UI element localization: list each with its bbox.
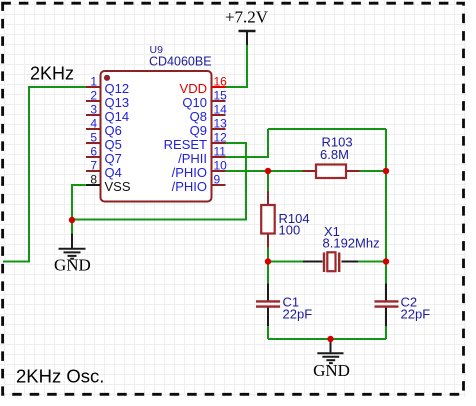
svg-text:9: 9: [214, 173, 221, 187]
pin 13 Q9: [190, 117, 228, 138]
pin 16 VDD: [180, 75, 228, 96]
svg-text:Q12: Q12: [105, 81, 130, 96]
wire bottom rail: [268, 338, 386, 340]
ground GND bottom: [313, 340, 350, 380]
svg-text:VSS: VSS: [105, 179, 131, 194]
svg-text:6.8M: 6.8M: [320, 147, 349, 162]
svg-text:22pF: 22pF: [401, 307, 431, 322]
pin 5 Q5: [86, 131, 122, 152]
wire node to R104 top: [267, 171, 269, 192]
svg-text:3: 3: [90, 103, 97, 117]
pin 11 /PHII: [178, 145, 226, 166]
svg-text:Q6: Q6: [105, 123, 122, 138]
svg-text:22pF: 22pF: [283, 307, 313, 322]
svg-text:1: 1: [90, 75, 97, 89]
svg-text:11: 11: [214, 145, 227, 159]
wire X1 left node: [268, 261, 303, 263]
pin-1 marker dot: [104, 75, 110, 81]
junction node X1 left: [265, 258, 271, 264]
wire C1 bottom: [267, 308, 269, 327]
svg-text:+7.2V: +7.2V: [225, 8, 269, 27]
wire pin10 /PHIO to R103 left: [220, 170, 303, 172]
svg-text:RESET: RESET: [164, 137, 207, 152]
svg-text:/PHIO: /PHIO: [172, 165, 207, 180]
pin 6 Q7: [86, 145, 122, 166]
svg-text:GND: GND: [313, 361, 350, 380]
svg-text:100: 100: [279, 222, 301, 237]
IC U9 CD4060BE: [101, 44, 212, 201]
svg-text:5: 5: [90, 131, 97, 145]
capacitor C2: [375, 295, 431, 322]
svg-text:4: 4: [90, 117, 97, 131]
wire top rail: [268, 128, 386, 130]
wire C1 top: [267, 262, 269, 284]
svg-text:2: 2: [90, 89, 97, 103]
wire X1 left black segment: [303, 261, 323, 263]
wire X1 right to rail: [358, 261, 386, 263]
svg-text:Q10: Q10: [182, 95, 207, 110]
pin 2 Q13: [86, 89, 129, 110]
svg-text:8.192Mhz: 8.192Mhz: [323, 236, 380, 251]
svg-text:14: 14: [214, 103, 228, 117]
svg-text:16: 16: [214, 75, 228, 89]
junction node R103 right: [383, 168, 389, 174]
svg-text:2KHz Osc.: 2KHz Osc.: [16, 366, 104, 387]
wire right rail vertical: [385, 129, 387, 262]
pin 9 /PHIO: [172, 173, 226, 194]
svg-text:10: 10: [214, 159, 228, 173]
svg-text:Q7: Q7: [105, 151, 122, 166]
svg-text:12: 12: [214, 131, 228, 145]
wire pin8 VSS to ground junction: [72, 185, 86, 234]
svg-text:GND: GND: [54, 256, 91, 275]
svg-text:Q13: Q13: [105, 95, 130, 110]
wire R103 right to right rail: [360, 170, 387, 172]
pin 14 Q8: [190, 103, 228, 124]
svg-text:7: 7: [90, 159, 97, 173]
pin 4 Q6: [86, 117, 122, 138]
wire C2 bottom: [385, 308, 387, 327]
wire RESET pin12 to ground junction: [71, 143, 246, 220]
svg-text:15: 15: [214, 89, 228, 103]
resistor R104: [261, 191, 309, 248]
pin 7 Q4: [86, 159, 122, 180]
wire pin11 /PHII up to top rail: [220, 129, 269, 157]
pin 15 Q10: [182, 89, 227, 110]
svg-text:Q9: Q9: [190, 123, 207, 138]
svg-text:Q14: Q14: [105, 109, 130, 124]
junction node X1 right: [383, 258, 389, 264]
pin 12 RESET: [164, 131, 228, 152]
svg-text:Q4: Q4: [105, 165, 122, 180]
pin 3 Q14: [86, 103, 129, 124]
wire pin16 VDD to +7.2V: [226, 45, 248, 87]
ground GND left: [54, 234, 91, 275]
svg-text:CD4060BE: CD4060BE: [149, 54, 212, 68]
resistor R103: [303, 135, 360, 179]
svg-text:6: 6: [90, 145, 97, 159]
svg-text:/PHII: /PHII: [178, 151, 207, 166]
svg-text:VDD: VDD: [180, 81, 207, 96]
pin 1 Q12: [86, 75, 129, 96]
svg-text:Q5: Q5: [105, 137, 122, 152]
junction node R103 left: [265, 168, 271, 174]
crystal X1: [323, 224, 380, 272]
svg-text:2KHz: 2KHz: [30, 64, 74, 84]
svg-text:/PHIO: /PHIO: [172, 179, 207, 194]
wire R104 bottom to X1 node: [267, 247, 269, 262]
junction node bottom ground: [327, 336, 333, 342]
pin 8 VSS: [86, 173, 131, 194]
capacitor C1: [256, 295, 312, 322]
svg-text:13: 13: [214, 117, 228, 131]
wire C2 top: [385, 262, 387, 284]
wire 2KHz net: border to pin1: [3, 87, 87, 262]
power +7.2V: [225, 8, 269, 45]
svg-text:8: 8: [90, 173, 97, 187]
junction node at left ground: [69, 217, 75, 223]
pin 10 /PHIO: [172, 159, 228, 180]
wire X1 right black segment: [342, 261, 359, 263]
svg-text:Q8: Q8: [190, 109, 207, 124]
